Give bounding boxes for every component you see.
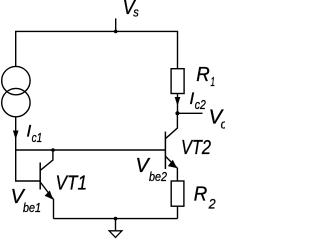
label Vs [123,0,140,19]
label Vo [209,106,228,131]
wire VT1 base connection [16,150,41,181]
resistor R2 [171,181,184,206]
wire R1 bottom to collector node [177,94,179,114]
label Ic1 [26,122,42,145]
transistor VT1 [40,150,53,219]
label Vbe2 [136,155,168,184]
label Vbe1 [11,186,41,215]
wire Vo output [177,112,202,114]
wire bottom rail [54,218,178,220]
node ground junction dot [114,217,118,221]
wire Vs stub [115,18,117,31]
svg-text:VT2: VT2 [181,137,211,159]
svg-text:s: s [133,5,139,20]
arrow Ic1 current direction [13,131,19,140]
wire R2 bottom lead [177,206,179,218]
svg-text:R: R [194,184,208,206]
label Ic2 [189,90,205,112]
label R1 [196,64,215,89]
svg-text:2: 2 [208,195,216,211]
node junction dot at VT1 collector [51,148,55,152]
svg-text:be2: be2 [149,169,168,184]
wire node line (VT1 collector to VT2 base) [16,149,166,151]
resistor R1 [171,69,184,94]
svg-text:c2: c2 [195,98,206,112]
svg-text:1: 1 [211,74,216,89]
arrow Ic2 current direction [175,97,181,106]
svg-text:o: o [221,117,225,132]
node Vs junction dot [114,30,118,34]
svg-text:c1: c1 [32,130,43,145]
wire top rail [16,31,178,68]
node junction dot at Vo [175,111,179,115]
svg-text:VT1: VT1 [56,172,88,194]
svg-text:R: R [196,64,210,86]
label R2 [194,184,216,212]
transistor VT2 [165,113,177,181]
svg-text:be1: be1 [23,200,41,215]
ground [109,219,122,238]
current source I1 (two overlapping circles) [2,66,30,116]
wire current source to node line [15,117,17,150]
